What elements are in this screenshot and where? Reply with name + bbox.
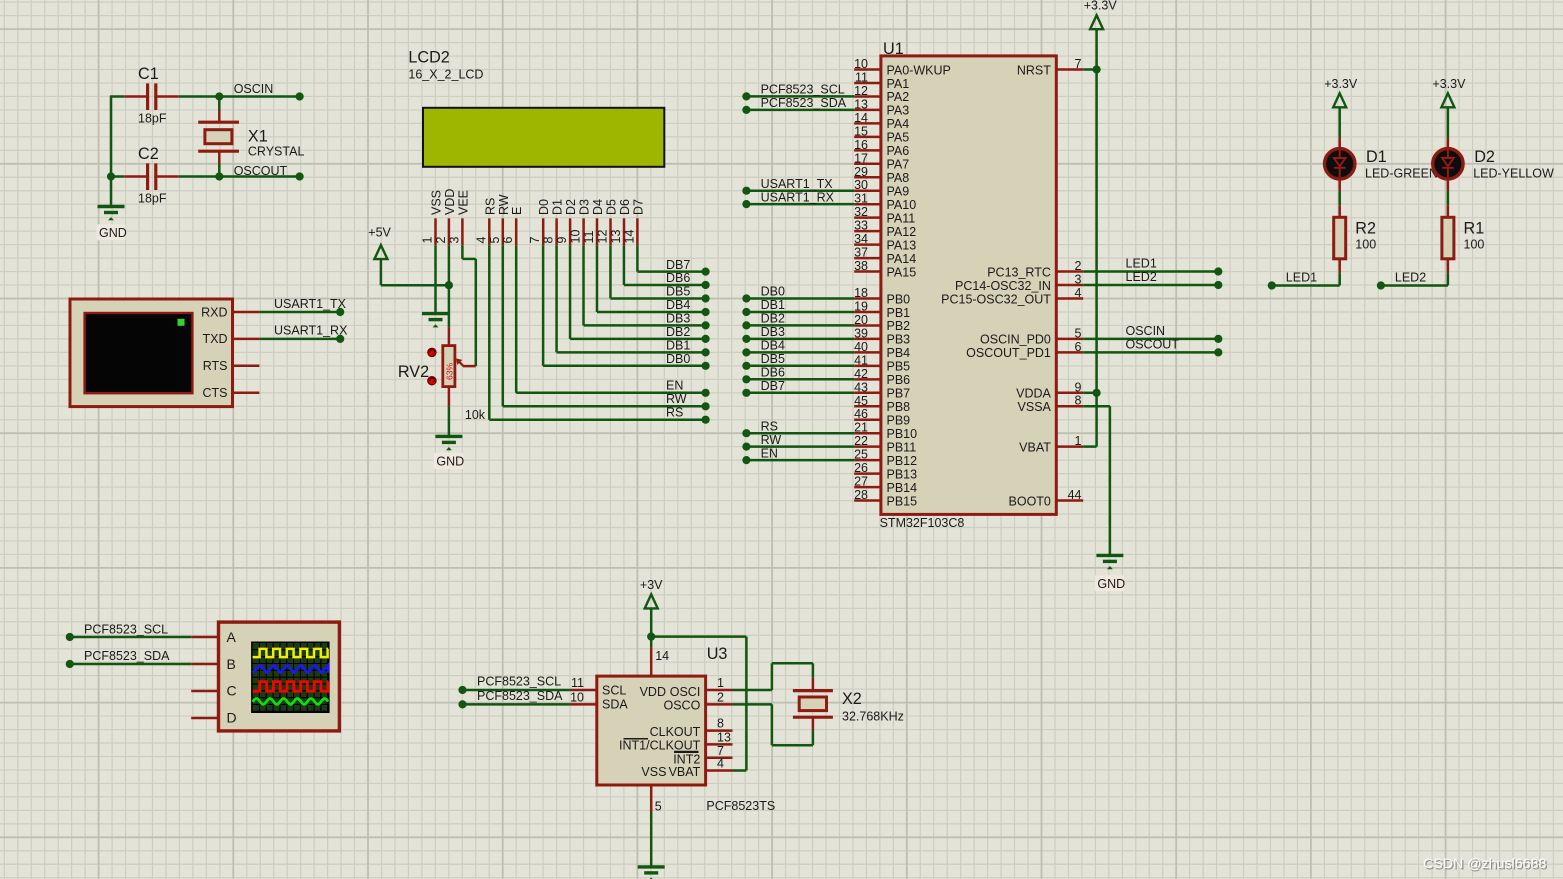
U3 pin 5 VSS [651, 785, 662, 814]
svg-text:GND: GND [1097, 577, 1125, 591]
svg-text:VDDA: VDDA [1016, 387, 1051, 401]
svg-text:12: 12 [854, 84, 868, 98]
svg-text:16_X_2_LCD: 16_X_2_LCD [408, 67, 483, 81]
svg-text:OSCOUT: OSCOUT [1126, 338, 1180, 352]
svg-text:PB3: PB3 [887, 333, 911, 347]
svg-text:DB6: DB6 [666, 271, 690, 285]
wire LED2 net from PC14 [1083, 270, 1222, 289]
svg-text:OSCI: OSCI [670, 685, 701, 699]
wire USART1_TX net [259, 297, 346, 316]
crystal X2 32.768KHz [793, 678, 904, 731]
svg-text:OSCOUT_PD1: OSCOUT_PD1 [966, 346, 1051, 360]
svg-text:PA12: PA12 [887, 225, 917, 239]
svg-text:VEE: VEE [456, 190, 470, 215]
U1 pin 43 PB7 [854, 380, 910, 400]
node OSCOUT junction [107, 164, 304, 181]
svg-text:3: 3 [1075, 273, 1082, 287]
wire LCD DB6 net [624, 245, 710, 289]
wire D1 to R2 [1338, 191, 1341, 205]
ground below U3 [638, 867, 665, 879]
svg-text:30: 30 [854, 178, 868, 192]
wire LED1 net from PC13 [1083, 257, 1222, 276]
wire left vertical C1/C2 to GND [110, 96, 124, 207]
svg-text:PA9: PA9 [887, 185, 910, 199]
U3 pin 8 [706, 717, 733, 731]
LCD2 pin 6 E [501, 207, 524, 246]
svg-text:9: 9 [555, 237, 569, 244]
svg-text:DB1: DB1 [666, 339, 690, 353]
wire DB4 to U1 [742, 339, 854, 357]
svg-text:13: 13 [717, 730, 731, 744]
svg-text:PB12: PB12 [887, 454, 918, 468]
svg-text:PB5: PB5 [887, 360, 911, 374]
U1 pin 27 PB14 [854, 475, 917, 495]
wire PCF8523_SDA to U1 [742, 96, 854, 114]
watermark [1423, 856, 1548, 873]
svg-text:100: 100 [1464, 238, 1485, 252]
svg-text:B: B [227, 656, 236, 672]
U1 pin 39 PB3 [854, 326, 910, 346]
svg-text:PCF8523_SDA: PCF8523_SDA [477, 689, 563, 703]
wire DB6 to U1 [742, 366, 854, 384]
svg-text:+3.3V: +3.3V [1432, 77, 1466, 91]
wire USART1_RX net [259, 324, 348, 343]
svg-text:10k: 10k [465, 408, 486, 422]
terminal pin TXD [233, 338, 260, 341]
svg-text:13: 13 [609, 230, 623, 244]
svg-text:5: 5 [488, 237, 502, 244]
svg-text:OSCIN: OSCIN [1126, 324, 1166, 338]
U1 pin 44 BOOT0 [1009, 488, 1084, 508]
U3 pin 4 [706, 757, 733, 771]
U1 pin 10 PA0-WKUP [854, 57, 951, 77]
wire +3V to U3 VDD [647, 609, 655, 647]
svg-text:EN: EN [666, 379, 683, 393]
svg-text:RTS: RTS [203, 359, 228, 373]
wire VDDA to +3.3V rail [1083, 389, 1101, 397]
svg-text:RXD: RXD [201, 305, 227, 319]
svg-text:11: 11 [855, 70, 868, 84]
power +3.3V symbol top [1084, 0, 1118, 29]
node +5V junction at VDD [445, 281, 453, 289]
wire PCF8523_SDA to scope B [66, 649, 191, 668]
svg-text:28: 28 [854, 488, 868, 502]
svg-text:NRST: NRST [1017, 63, 1051, 77]
wire DB0 to U1 [742, 285, 854, 303]
wire +3.3V to D2 [1447, 108, 1450, 138]
svg-text:VSSA: VSSA [1018, 400, 1052, 414]
wire PCF8523_SCL to scope A [66, 623, 191, 642]
U1 pin 40 PB4 [854, 340, 910, 360]
svg-text:18: 18 [854, 286, 868, 300]
svg-text:VBAT: VBAT [669, 765, 701, 779]
svg-text:18pF: 18pF [138, 112, 167, 126]
U3 pin 10 SDA [570, 691, 597, 705]
svg-text:31: 31 [854, 192, 868, 206]
wire DB2 to U1 [742, 312, 854, 330]
U1 pin 34 PA13 [854, 232, 916, 252]
svg-text:PCF8523_SCL: PCF8523_SCL [477, 675, 561, 689]
svg-text:A: A [227, 629, 237, 645]
svg-text:PA8: PA8 [887, 171, 910, 185]
wire USART1_TX to U1 [742, 177, 854, 195]
svg-text:19: 19 [854, 299, 868, 313]
svg-text:VBAT: VBAT [1019, 440, 1051, 454]
U1 pin 45 PB8 [854, 394, 910, 414]
svg-text:9: 9 [1075, 380, 1082, 394]
power +3.3V above D1 [1324, 77, 1358, 107]
svg-text:PB6: PB6 [887, 373, 911, 387]
svg-text:6: 6 [1075, 340, 1082, 354]
wire DB5 to U1 [742, 352, 854, 370]
svg-text:26: 26 [854, 461, 868, 475]
wire LCD VEE to RV2 wiper [462, 245, 475, 366]
svg-text:14: 14 [854, 111, 868, 125]
svg-text:SDA: SDA [602, 698, 628, 712]
svg-text:29: 29 [854, 165, 868, 179]
svg-text:VSS: VSS [430, 190, 444, 215]
LCD2 pin 9 D2 [555, 199, 578, 245]
svg-text:CLKOUT: CLKOUT [650, 725, 701, 739]
svg-text:DB6: DB6 [761, 366, 785, 380]
svg-text:GND: GND [99, 226, 127, 240]
microcontroller U1 STM32F103C8 [880, 40, 1057, 530]
svg-text:INT1/CLKOUT: INT1/CLKOUT [619, 739, 701, 753]
oscilloscope instrument [219, 622, 340, 731]
svg-text:PCF8523_SCL: PCF8523_SCL [84, 623, 168, 637]
svg-text:2: 2 [434, 237, 448, 244]
U1 pin 14 PA4 [854, 111, 909, 131]
svg-text:DB7: DB7 [666, 258, 690, 272]
svg-text:DB3: DB3 [761, 325, 785, 339]
ground below U1 [1095, 555, 1125, 591]
svg-text:OSCIN: OSCIN [234, 82, 274, 96]
svg-text:C: C [227, 683, 237, 699]
crystal X1 [198, 97, 304, 177]
svg-text:USART1_TX: USART1_TX [761, 177, 834, 191]
svg-text:D: D [227, 710, 237, 726]
svg-text:22: 22 [854, 434, 868, 448]
svg-text:OSCOUT: OSCOUT [234, 164, 288, 178]
svg-text:SCL: SCL [602, 683, 626, 697]
svg-text:D7: D7 [631, 199, 645, 215]
svg-text:1: 1 [1075, 434, 1082, 448]
svg-text:DB4: DB4 [666, 298, 690, 312]
wire EN to U1 [742, 446, 854, 464]
svg-text:4: 4 [1075, 286, 1082, 300]
svg-text:D2: D2 [564, 199, 578, 215]
svg-text:42: 42 [854, 367, 868, 381]
LCD2 pin 12 D5 [596, 199, 619, 245]
wire RW to U1 [742, 433, 854, 451]
U1 pin 32 PA11 [854, 205, 915, 225]
svg-text:LED1: LED1 [1126, 257, 1157, 271]
U1 pin 4 PC15-OSC32_OUT [941, 286, 1083, 306]
svg-text:PA6: PA6 [887, 144, 910, 158]
svg-text:46: 46 [854, 407, 868, 421]
U3 pin 7 [706, 744, 733, 758]
U1 pin 11 PA1 [854, 70, 909, 90]
U1 pin 3 PC14-OSC32_IN [955, 273, 1083, 293]
U1 pin 38 PA15 [854, 259, 916, 279]
svg-text:DB5: DB5 [761, 352, 785, 366]
scope pin C [191, 690, 218, 693]
svg-text:R1: R1 [1464, 220, 1485, 238]
svg-text:DB2: DB2 [666, 325, 690, 339]
svg-text:38: 38 [854, 259, 868, 273]
scope pin A [191, 636, 218, 639]
svg-text:41: 41 [854, 353, 868, 367]
LCD2 pin 7 D0 [528, 199, 551, 245]
svg-text:DB1: DB1 [761, 298, 785, 312]
svg-text:32: 32 [854, 205, 868, 219]
svg-text:D6: D6 [618, 199, 632, 215]
resistor R1 100 [1442, 205, 1485, 273]
U1 pin 13 PA3 [854, 97, 909, 117]
svg-text:7: 7 [528, 237, 542, 244]
svg-text:PA13: PA13 [887, 238, 917, 252]
U1 pin 37 PA14 [854, 246, 916, 266]
svg-text:D3: D3 [578, 199, 592, 215]
power +5V symbol [368, 225, 391, 259]
wire LCD DB2 net [570, 245, 710, 343]
wire DB3 to U1 [742, 325, 854, 343]
wire VSSA to ground [1083, 406, 1110, 555]
svg-text:18pF: 18pF [138, 192, 167, 206]
svg-text:STM32F103C8: STM32F103C8 [880, 516, 965, 530]
LCD display LCD2 [408, 49, 664, 167]
svg-text:PA11: PA11 [887, 211, 916, 225]
svg-text:32.768KHz: 32.768KHz [842, 710, 904, 724]
U3 pin 1 [706, 676, 733, 690]
wire OSCOUT net [179, 175, 300, 178]
U1 pin 6 OSCOUT_PD1 [966, 340, 1083, 360]
svg-text:10: 10 [854, 57, 868, 71]
U1 pin 18 PB0 [854, 286, 910, 306]
wire OSCIN net from PD0 [1083, 324, 1222, 343]
svg-text:USART1_RX: USART1_RX [761, 190, 835, 204]
svg-text:EN: EN [761, 446, 778, 460]
svg-text:DB3: DB3 [666, 312, 690, 326]
svg-text:DB2: DB2 [761, 312, 785, 326]
U1 pin 5 OSCIN_PD0 [980, 326, 1083, 346]
scope pin D [191, 717, 218, 720]
svg-text:DB0: DB0 [666, 352, 690, 366]
wire LCD RS net [489, 245, 709, 424]
svg-text:PC13_RTC: PC13_RTC [987, 265, 1051, 279]
svg-text:USART1_TX: USART1_TX [274, 297, 347, 311]
U1 pin 31 PA10 [854, 192, 916, 212]
U1 pin 8 VSSA [1018, 394, 1084, 414]
svg-text:VSS: VSS [641, 765, 666, 779]
svg-text:U3: U3 [707, 645, 728, 663]
U1 pin 17 PA7 [854, 151, 909, 171]
svg-text:8: 8 [1075, 394, 1082, 408]
U1 pin 15 PA5 [854, 124, 909, 144]
svg-text:USART1_RX: USART1_RX [274, 324, 348, 338]
svg-text:PA1: PA1 [887, 77, 910, 91]
svg-text:PB4: PB4 [887, 346, 911, 360]
svg-text:GND: GND [436, 455, 464, 469]
wire DB1 to U1 [742, 298, 854, 316]
ground below RV2 [434, 436, 464, 469]
wire OSCOUT net from PD1 [1083, 338, 1222, 357]
terminal pin RXD [233, 311, 260, 314]
svg-text:11: 11 [571, 676, 584, 690]
wire U3 VSS to ground [650, 812, 653, 867]
svg-text:D0: D0 [537, 199, 551, 215]
svg-text:PB10: PB10 [887, 427, 918, 441]
svg-text:PB13: PB13 [887, 467, 918, 481]
ground below LCD pin 1 [422, 314, 449, 328]
svg-text:1: 1 [717, 676, 724, 690]
LCD2 pin 1 VSS [421, 190, 444, 245]
svg-text:PB11: PB11 [887, 440, 917, 454]
svg-text:27: 27 [854, 475, 868, 489]
wire LCD EN net [516, 245, 710, 397]
wire LCD DB7 net [637, 245, 709, 276]
svg-text:PB0: PB0 [887, 292, 911, 306]
svg-text:4: 4 [474, 237, 488, 244]
U1 pin 29 PA8 [854, 165, 909, 185]
svg-text:40: 40 [854, 340, 868, 354]
svg-text:RW: RW [761, 433, 782, 447]
RTC U3 PCF8523TS [597, 645, 775, 813]
wire USART1_RX to U1 [742, 190, 854, 208]
U3 pin 13 [706, 730, 733, 744]
wire VBAT to +3.3V rail [1083, 445, 1096, 448]
U1 pin 42 PB6 [854, 367, 910, 387]
LCD2 pin 8 D1 [542, 199, 565, 245]
svg-text:1: 1 [421, 237, 435, 244]
svg-text:45: 45 [854, 394, 868, 408]
wire +3V to U3 VBAT loop [651, 637, 746, 771]
wire LED1 net below R2 [1268, 271, 1340, 290]
svg-text:44: 44 [1068, 488, 1082, 502]
U1 pin 20 PB2 [854, 313, 910, 333]
svg-text:DB7: DB7 [761, 379, 785, 393]
svg-text:PCF8523_SCL: PCF8523_SCL [761, 83, 845, 97]
svg-text:VDD: VDD [443, 189, 457, 215]
svg-text:10: 10 [570, 691, 584, 705]
svg-text:33: 33 [854, 219, 868, 233]
svg-text:LED2: LED2 [1395, 271, 1426, 285]
svg-text:D1: D1 [551, 199, 565, 215]
svg-text:8: 8 [717, 717, 724, 731]
svg-text:PA15: PA15 [887, 265, 917, 279]
svg-text:3: 3 [447, 237, 461, 244]
svg-text:RW: RW [497, 194, 511, 215]
svg-text:RW: RW [666, 392, 687, 406]
svg-text:CRYSTAL: CRYSTAL [248, 145, 305, 159]
svg-text:CTS: CTS [203, 386, 228, 400]
scope pin B [191, 663, 218, 666]
svg-text:25: 25 [854, 448, 868, 462]
svg-text:PA2: PA2 [887, 90, 910, 104]
wire PCF8523_SCL to U3 [458, 675, 570, 694]
LCD2 pin 10 D3 [569, 199, 592, 245]
wire DB7 to U1 [742, 379, 854, 397]
svg-text:C1: C1 [138, 65, 159, 83]
svg-text:13: 13 [854, 97, 868, 111]
wire PCF8523_SCL to U1 [742, 83, 854, 101]
svg-text:LED2: LED2 [1126, 270, 1157, 284]
svg-text:2: 2 [717, 690, 724, 704]
svg-text:BOOT0: BOOT0 [1009, 494, 1051, 508]
svg-text:39: 39 [854, 326, 868, 340]
LCD2 pin 3 VEE [447, 190, 470, 245]
svg-text:15: 15 [854, 124, 868, 138]
svg-text:OSCIN_PD0: OSCIN_PD0 [980, 333, 1051, 347]
svg-text:TXD: TXD [203, 332, 228, 346]
capacitor C2 [124, 145, 178, 206]
svg-text:D2: D2 [1474, 148, 1495, 166]
svg-text:7: 7 [1075, 57, 1082, 71]
terminal pin RTS [233, 365, 260, 368]
svg-text:PA7: PA7 [887, 158, 910, 172]
wire D2 to R1 [1447, 191, 1450, 205]
U1 pin 2 PC13_RTC [987, 259, 1083, 279]
svg-text:D4: D4 [591, 199, 605, 215]
wire RV2 to ground [448, 406, 451, 436]
wire U3 OSCI to X2 [733, 663, 813, 690]
svg-text:PC15-OSC32_OUT: PC15-OSC32_OUT [941, 292, 1051, 306]
svg-text:63%: 63% [445, 363, 455, 380]
svg-text:20: 20 [854, 313, 868, 327]
svg-text:PB15: PB15 [887, 494, 918, 508]
wire LCD DB3 net [584, 245, 710, 329]
svg-text:DB4: DB4 [761, 339, 785, 353]
svg-text:16: 16 [854, 138, 868, 152]
svg-text:D1: D1 [1366, 148, 1387, 166]
power +3V symbol [640, 578, 663, 608]
svg-text:+3.3V: +3.3V [1324, 77, 1358, 91]
U1 pin 41 PB5 [854, 353, 910, 373]
svg-text:C2: C2 [138, 145, 159, 163]
wire PCF8523_SDA to U3 [458, 689, 570, 708]
svg-text:PA5: PA5 [887, 131, 910, 145]
LED D1 LED-GREEN [1325, 138, 1438, 192]
wire NRST to +3.3V [1083, 65, 1101, 73]
svg-text:RV2: RV2 [398, 363, 429, 381]
wire LCD RW net [503, 245, 710, 410]
U1 pin 16 PA6 [854, 138, 909, 158]
svg-text:37: 37 [854, 246, 868, 260]
svg-text:11: 11 [582, 230, 596, 243]
LCD2 pin 2 VDD [434, 189, 457, 246]
wire LED2 net below R1 [1377, 271, 1448, 290]
svg-text:12: 12 [596, 230, 610, 244]
svg-text:PA14: PA14 [887, 252, 917, 266]
potentiometer RV2 10k [398, 327, 486, 422]
U1 pin 25 PB12 [854, 448, 917, 468]
svg-text:PCF8523_SDA: PCF8523_SDA [761, 96, 847, 110]
svg-text:100: 100 [1355, 238, 1376, 252]
svg-text:LED-YELLOW: LED-YELLOW [1473, 167, 1554, 181]
resistor R2 100 [1334, 205, 1377, 273]
U1 pin 26 PB13 [854, 461, 917, 481]
svg-text:+3.3V: +3.3V [1084, 0, 1118, 13]
svg-text:PB14: PB14 [887, 481, 918, 495]
svg-text:PA3: PA3 [887, 104, 910, 118]
svg-text:RS: RS [666, 406, 683, 420]
LCD2 pin 5 RW [488, 194, 511, 245]
U1 pin 9 VDDA [1016, 380, 1083, 400]
svg-text:PB8: PB8 [887, 400, 911, 414]
svg-text:14: 14 [655, 649, 669, 663]
svg-text:4: 4 [717, 757, 724, 771]
wire RS to U1 [742, 419, 854, 437]
